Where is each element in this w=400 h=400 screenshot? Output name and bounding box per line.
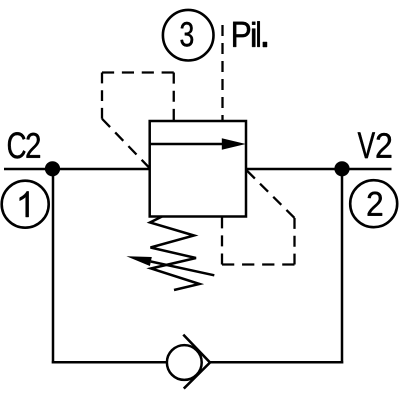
pilot dashed line Pil. to valve bbox=[221, 25, 223, 121]
valve flow path line bbox=[150, 143, 226, 146]
adjustment arrow head bbox=[126, 256, 151, 266]
wire: right vertical drop bbox=[341, 169, 344, 364]
port circle 2 bbox=[350, 180, 397, 227]
check valve CV1 seat bbox=[183, 335, 210, 389]
valve flow path arrowhead bbox=[222, 138, 246, 150]
valve body U1 bbox=[150, 121, 246, 217]
pilot port label Pil. bbox=[233, 21, 267, 47]
wire: main line C2 to valve bbox=[4, 168, 150, 171]
port label C2 bbox=[8, 132, 40, 158]
wire: bottom line right of check valve bbox=[210, 361, 344, 364]
wire: left vertical drop bbox=[52, 169, 55, 364]
port number 3 bbox=[181, 22, 194, 47]
pilot dashed line right loop bbox=[222, 171, 295, 265]
wire: main line valve to V2 bbox=[246, 168, 392, 171]
junction dot C2 node bbox=[45, 161, 60, 176]
port label V2 bbox=[358, 132, 392, 158]
port circle 1 bbox=[2, 181, 49, 228]
spring bbox=[150, 217, 200, 291]
wire: bottom line left of check valve bbox=[52, 361, 166, 364]
adjustment arrow shaft bbox=[151, 262, 215, 276]
port number 2 bbox=[368, 192, 382, 216]
junction dot V2 node bbox=[334, 161, 349, 176]
port circle 3 bbox=[163, 10, 214, 61]
check valve CV1 ball bbox=[167, 345, 202, 380]
port number 1 bbox=[20, 191, 29, 217]
pilot dashed line left loop bbox=[102, 73, 174, 169]
